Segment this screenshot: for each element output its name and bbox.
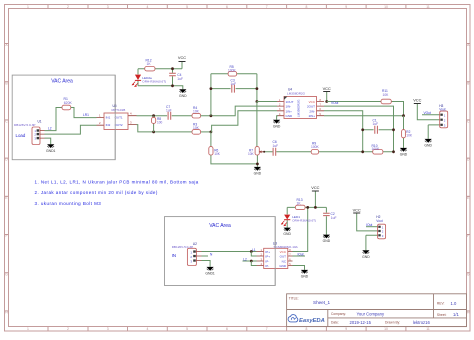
svg-text:1uF: 1uF (166, 109, 172, 113)
wire (257, 101, 277, 103)
svg-text:2019-12-15: 2019-12-15 (350, 320, 372, 325)
svg-text:1uF: 1uF (373, 122, 379, 126)
ground (LED1) (283, 228, 291, 237)
svg-text:10K: 10K (383, 93, 390, 97)
svg-text:VCC: VCC (311, 185, 319, 190)
svg-text:11: 11 (426, 5, 430, 9)
svg-text:F: F (5, 234, 7, 238)
svg-text:VCC: VCC (178, 55, 186, 60)
VCC symbol (H2) (353, 207, 378, 231)
resistor R6 10K (209, 147, 221, 156)
svg-text:IN: IN (172, 253, 176, 258)
svg-text:Sheet:: Sheet: (437, 313, 447, 317)
wire (256, 102, 258, 147)
svg-text:10K: 10K (193, 126, 200, 130)
svg-text:10K: 10K (248, 152, 255, 156)
wire (137, 125, 193, 132)
optocoupler U5 MPT101B (97, 104, 137, 130)
svg-text:1uF: 1uF (331, 216, 337, 220)
ground (R6/R7) (254, 167, 262, 176)
svg-text:8: 8 (306, 327, 308, 331)
svg-text:1uF: 1uF (177, 77, 183, 81)
svg-text:10: 10 (384, 327, 388, 331)
svg-text:2: 2 (67, 5, 69, 9)
wire (137, 115, 168, 117)
svg-text:OUT1: OUT1 (115, 115, 123, 119)
svg-text:U1: U1 (38, 119, 42, 123)
svg-text:GND: GND (400, 153, 408, 157)
svg-text:GND1: GND1 (205, 272, 215, 276)
ground (C2) (323, 235, 331, 244)
net label L1 (252, 248, 256, 252)
wire (391, 102, 403, 116)
capacitor C4 1uF (169, 73, 183, 81)
wire (422, 114, 440, 116)
connector H3 Vout (439, 104, 448, 128)
resistor R13 1K (295, 198, 305, 210)
connector U2 DB126V-5.0-3P (IN) (172, 242, 202, 265)
svg-text:3: 3 (107, 5, 109, 9)
net label L2 (bottom) (243, 257, 247, 261)
svg-text:VOut: VOut (331, 101, 338, 105)
svg-text:2IN-: 2IN- (309, 109, 315, 113)
VCC symbol (LED1) (311, 185, 319, 191)
wire (293, 255, 306, 257)
wire (287, 206, 326, 208)
svg-text:ORH-R36A(0.6T): ORH-R36A(0.6T) (142, 79, 166, 83)
net label VOut (2OUT) (331, 101, 338, 105)
svg-text:OUT2: OUT2 (115, 123, 123, 127)
op-amp U4 LM358DR2G (277, 88, 324, 119)
svg-text:Vout: Vout (376, 219, 382, 223)
svg-text:SCS8040SO-10A: SCS8040SO-10A (274, 245, 299, 249)
wire (417, 104, 439, 120)
svg-text:LR1: LR1 (83, 113, 89, 117)
svg-text:1IN-: 1IN- (286, 105, 292, 109)
svg-text:OUT: OUT (280, 255, 287, 259)
resistor R9 100K (311, 141, 320, 154)
net label VOut (H3) (424, 111, 431, 115)
wire (172, 115, 192, 117)
wire (202, 251, 257, 253)
svg-text:5: 5 (186, 327, 188, 331)
svg-text:REV:: REV: (437, 302, 445, 306)
svg-text:2: 2 (67, 327, 69, 331)
svg-text:VCC: VCC (353, 207, 361, 212)
wire (138, 69, 183, 90)
wire (324, 106, 394, 130)
svg-text:4: 4 (146, 5, 148, 9)
wire (202, 255, 209, 257)
wire (211, 132, 258, 167)
svg-text:1/1: 1/1 (453, 312, 459, 317)
svg-text:1uF: 1uF (231, 82, 237, 86)
wire (326, 92, 328, 102)
ground (R2) (400, 148, 408, 157)
wire (314, 191, 316, 207)
LED LED1 ORH-R36A(0.6T) (281, 215, 316, 227)
net label LR1 (83, 113, 89, 117)
svg-text:Load: Load (16, 133, 26, 138)
capacitor C6 1uF (273, 140, 279, 156)
svg-text:Your Company: Your Company (357, 312, 385, 317)
svg-text:DB126V-5.0-3P: DB126V-5.0-3P (172, 245, 194, 249)
svg-text:GND: GND (323, 239, 331, 243)
svg-text:IN2: IN2 (106, 123, 111, 127)
svg-text:ORH-R36A(0.6T): ORH-R36A(0.6T) (292, 218, 316, 222)
ground (U4) (273, 120, 281, 129)
wire (363, 151, 394, 153)
potentiometer R7 10K (248, 147, 264, 156)
svg-text:1uF: 1uF (273, 144, 279, 148)
capacitor C2 1uF (323, 212, 336, 220)
svg-text:IP-: IP- (265, 260, 269, 264)
wire (201, 106, 277, 116)
svg-text:620K: 620K (64, 101, 73, 105)
net label IOut (U3) (298, 252, 304, 256)
resistor R8 100 (152, 117, 163, 124)
svg-text:GND: GND (286, 114, 294, 118)
svg-text:2OUT: 2OUT (307, 105, 315, 109)
svg-text:100: 100 (157, 121, 163, 125)
svg-text:VCC: VCC (280, 250, 287, 254)
wire (153, 116, 155, 132)
svg-text:Vout: Vout (439, 108, 445, 112)
net label IOut (H2) (366, 223, 372, 227)
svg-text:5: 5 (186, 5, 188, 9)
net label L2 (48, 127, 52, 131)
svg-text:VCC: VCC (323, 86, 331, 91)
wire (324, 115, 404, 117)
svg-text:GND: GND (424, 144, 432, 148)
wire (277, 116, 278, 120)
svg-text:IP+: IP+ (265, 250, 270, 254)
svg-text:IN1: IN1 (106, 115, 111, 119)
svg-text:1IN+: 1IN+ (286, 109, 293, 113)
svg-text:U2: U2 (193, 242, 197, 246)
svg-text:7: 7 (266, 5, 268, 9)
svg-text:GND: GND (179, 94, 187, 98)
wire (172, 69, 174, 86)
svg-text:2. Jarak antar component min 2: 2. Jarak antar component min 20 mil (sid… (35, 190, 158, 195)
svg-text:G: G (467, 272, 470, 276)
svg-text:F: F (467, 234, 469, 238)
capacitor C7 1uF (166, 105, 172, 120)
svg-text:8: 8 (306, 5, 308, 9)
svg-text:IOut: IOut (366, 223, 372, 227)
resistor R10 100K (372, 144, 383, 154)
svg-text:10K: 10K (214, 152, 221, 156)
ground (H3) (424, 139, 432, 148)
svg-text:Drawn By:: Drawn By: (385, 321, 400, 325)
wire (264, 151, 363, 153)
VCC symbol (H3) (413, 98, 440, 120)
ground (H2) (362, 250, 370, 259)
svg-text:9: 9 (345, 327, 347, 331)
wire (325, 207, 327, 234)
svg-text:100K: 100K (228, 69, 237, 73)
svg-text:1OUT: 1OUT (286, 100, 294, 104)
wire (366, 226, 378, 228)
resistor R1 620K (62, 97, 72, 110)
svg-text:9: 9 (345, 5, 347, 9)
svg-text:VAC Area: VAC Area (209, 223, 231, 229)
svg-text:GND: GND (301, 275, 309, 279)
svg-text:1. Net L1, L2, LR1, N Ukuran j: 1. Net L1, L2, LR1, N Ukuran jalur PCB m… (35, 179, 199, 184)
svg-text:100K: 100K (372, 147, 381, 151)
svg-text:6: 6 (226, 327, 228, 331)
title block (287, 294, 467, 327)
wire (286, 207, 288, 214)
svg-text:10: 10 (384, 5, 388, 9)
wire (357, 213, 378, 231)
svg-text:DB126V-5.0-3P: DB126V-5.0-3P (14, 123, 36, 127)
svg-text:GND: GND (273, 124, 281, 128)
svg-text:VAC Area: VAC Area (51, 79, 73, 85)
VCC symbol (LED2a) (178, 55, 186, 62)
svg-text:lektroz16: lektroz16 (413, 320, 431, 325)
wire (327, 101, 381, 103)
svg-text:IP-: IP- (265, 264, 269, 268)
wire (45, 108, 63, 131)
capacitor C3 1uF (231, 79, 237, 93)
wire (138, 62, 182, 69)
connector H2 Vout (376, 215, 385, 239)
svg-text:LM358DR2G: LM358DR2G (287, 92, 306, 96)
ground (U3) (301, 270, 309, 279)
connector U1 DB126V-5.0-3P (Load) (14, 119, 45, 144)
VAC Area box 2 (165, 217, 276, 286)
LED LED2a ORH-R36A(0.6T) (132, 75, 167, 87)
capacitor C1 1uF (373, 118, 379, 133)
svg-text:LM358DR2G: LM358DR2G (297, 99, 301, 117)
notes text (35, 179, 199, 205)
svg-text:G: G (5, 272, 8, 276)
wire (201, 131, 212, 133)
current sensor U3 SCS8040SO-10A (257, 241, 299, 268)
ground GND1 (U1) (46, 144, 56, 153)
wire (428, 125, 440, 139)
ground GND1 (U2) (205, 267, 215, 276)
svg-text:GND: GND (362, 255, 370, 259)
resistor R5 100K (228, 65, 237, 76)
wire (251, 252, 256, 257)
svg-text:TITLE:: TITLE: (289, 297, 299, 301)
resistor R3 10K (192, 122, 201, 134)
resistor R2 10K (402, 130, 413, 138)
wire (212, 111, 277, 132)
svg-text:IP+: IP+ (265, 255, 270, 259)
wire (251, 261, 256, 266)
EasyEDA logo (288, 315, 325, 324)
net label N (210, 253, 213, 257)
svg-text:3. ukuran mounting Bolt M3: 3. ukuran mounting Bolt M3 (35, 201, 102, 206)
wire (286, 220, 288, 228)
svg-text:GND: GND (279, 264, 287, 268)
wire (211, 74, 257, 116)
wire (366, 235, 378, 250)
wire (45, 125, 97, 134)
svg-text:GND: GND (254, 172, 262, 176)
wire (293, 266, 305, 270)
svg-text:100K: 100K (311, 145, 320, 149)
svg-text:1: 1 (27, 5, 29, 9)
svg-text:11: 11 (426, 327, 430, 331)
wire (393, 130, 395, 152)
resistor R4 10K (192, 106, 201, 118)
svg-text:IOut: IOut (298, 252, 304, 256)
svg-text:GND1: GND1 (46, 149, 56, 153)
svg-text:3: 3 (107, 327, 109, 331)
svg-text:VOut: VOut (424, 111, 431, 115)
ground (LED2a) (179, 89, 187, 98)
resistor R11 10K (381, 89, 391, 104)
VAC Area box 1 (12, 75, 115, 160)
svg-text:10K: 10K (193, 110, 200, 114)
VCC symbol (U4) (323, 86, 331, 102)
svg-text:Sheet_1: Sheet_1 (313, 300, 331, 305)
svg-text:VCC: VCC (413, 98, 421, 103)
wire (403, 116, 405, 148)
svg-text:6: 6 (226, 5, 228, 9)
svg-text:MPT101B: MPT101B (112, 108, 126, 112)
wire (45, 138, 51, 144)
wire (324, 111, 363, 152)
wire (363, 129, 394, 131)
wire (211, 88, 257, 90)
wire (71, 108, 97, 118)
svg-text:7: 7 (266, 327, 268, 331)
svg-text:Date:: Date: (331, 321, 339, 325)
svg-text:VCC: VCC (309, 100, 316, 104)
svg-text:Company:: Company: (331, 312, 346, 316)
svg-text:10K: 10K (406, 134, 413, 138)
wire (202, 261, 211, 267)
wire (293, 207, 308, 251)
svg-text:EasyEDA: EasyEDA (299, 318, 325, 324)
svg-text:GND: GND (283, 232, 291, 236)
svg-text:1.0: 1.0 (451, 301, 457, 306)
resistor R12 1K (145, 59, 155, 71)
svg-text:4: 4 (146, 327, 148, 331)
svg-text:2IN+: 2IN+ (309, 114, 316, 118)
wire (243, 260, 257, 262)
svg-text:1: 1 (27, 327, 29, 331)
svg-text:L2: L2 (48, 127, 52, 131)
